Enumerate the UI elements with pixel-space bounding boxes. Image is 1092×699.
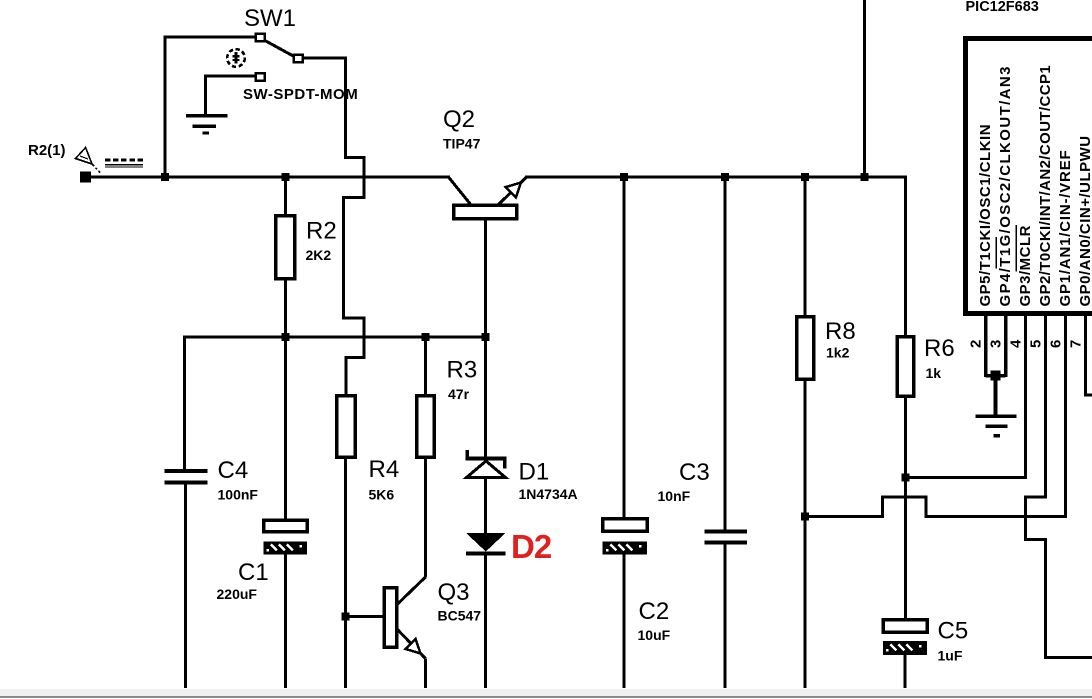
junction: top vertical on main net xyxy=(861,173,869,181)
wire: R6 node down to C5 xyxy=(904,478,907,621)
svg-text:C5: C5 xyxy=(938,618,969,645)
wire: R8 bottom node to pin6 (GP1) with hop xyxy=(805,314,1066,517)
svg-text:GP2/T0CKI/INT/AN2/COUT/CCP1: GP2/T0CKI/INT/AN2/COUT/CCP1 xyxy=(1037,65,1054,307)
svg-text:C2: C2 xyxy=(639,598,670,625)
svg-text:C1: C1 xyxy=(238,559,269,586)
svg-text:R3: R3 xyxy=(447,357,478,384)
probe symbol xyxy=(76,148,102,175)
wire: pin5 (GP2) routed to bottom right xyxy=(1026,314,1092,658)
pin 7 stub to right edge xyxy=(1086,314,1092,395)
svg-text:220uF: 220uF xyxy=(217,586,258,602)
wire: main net corner down to R6 xyxy=(904,176,907,338)
tag dashed marker xyxy=(105,160,143,167)
wire: R6 node to pin4 (GP3) xyxy=(904,314,1026,478)
svg-text:TIP47: TIP47 xyxy=(443,136,481,152)
svg-text:GP1/AN1/CIN-/VREF: GP1/AN1/CIN-/VREF xyxy=(1057,150,1074,307)
wire: node to ground xyxy=(994,376,998,416)
capacitor C2 xyxy=(603,177,648,688)
switch SW1 pole terminal xyxy=(256,34,265,42)
svg-text:BC547: BC547 xyxy=(438,608,482,624)
ground (SW1) xyxy=(186,114,228,135)
svg-text:10uF: 10uF xyxy=(638,627,671,643)
junction: R8 bottom node xyxy=(801,513,809,521)
junction: Q3 base on R4 lead xyxy=(342,613,350,621)
svg-text:1k: 1k xyxy=(926,365,942,381)
svg-text:100nF: 100nF xyxy=(218,487,259,503)
svg-text:1N4734A: 1N4734A xyxy=(519,486,578,502)
svg-text:D1: D1 xyxy=(519,459,550,486)
wire: pin2-pin3 tie xyxy=(986,374,1006,378)
wire: second horizontal net xyxy=(184,336,487,339)
svg-text:PIC12F683: PIC12F683 xyxy=(966,0,1039,15)
svg-text:R2(1): R2(1) xyxy=(28,142,66,159)
diode D2 xyxy=(466,533,506,688)
wire: SW1 throw2 to ground xyxy=(204,76,256,115)
svg-text:1uF: 1uF xyxy=(938,648,963,664)
resistor R8 xyxy=(797,177,814,688)
wire: main horizontal net left segment xyxy=(85,176,450,179)
bottom scrollbar band xyxy=(0,689,1092,698)
resistor R3 xyxy=(417,338,435,578)
svg-text:2: 2 xyxy=(968,340,985,348)
junction: pins 2-3 ground node xyxy=(991,371,1001,381)
svg-text:GP4/T1G/OSC2/CLKOUT/AN3: GP4/T1G/OSC2/CLKOUT/AN3 xyxy=(997,65,1014,306)
svg-text:SW-SPDT-MOM: SW-SPDT-MOM xyxy=(243,86,358,103)
resistor R6 xyxy=(897,337,914,479)
wire: vertical to top edge xyxy=(863,0,866,178)
wire: main horizontal net right segment xyxy=(525,176,907,179)
junction: C3 on main net xyxy=(721,173,729,181)
svg-text:GP0/AN0/CIN+/ULPWU: GP0/AN0/CIN+/ULPWU xyxy=(1077,135,1092,306)
svg-text:2K2: 2K2 xyxy=(306,247,332,263)
svg-text:1k2: 1k2 xyxy=(826,345,850,361)
junction: R2 top on main net xyxy=(282,173,290,181)
transistor Q3 xyxy=(346,577,426,688)
svg-text:4: 4 xyxy=(1008,339,1025,348)
svg-text:10nF: 10nF xyxy=(658,488,691,504)
svg-text:Q2: Q2 xyxy=(443,106,475,133)
switch SW1 lever xyxy=(264,40,295,57)
svg-text:D2: D2 xyxy=(511,528,552,565)
pin 3 stub xyxy=(1004,314,1008,377)
transistor Q2 xyxy=(448,177,527,340)
junction: R2/C1 on net2 xyxy=(282,333,290,341)
svg-text:GP5/T1CKI/OSC1/CLKIN: GP5/T1CKI/OSC1/CLKIN xyxy=(977,124,994,307)
switch SW1 throw1 terminal xyxy=(294,55,303,63)
capacitor C5 xyxy=(883,620,927,689)
junction: R6 bottom node xyxy=(902,474,910,482)
svg-text:Q3: Q3 xyxy=(438,579,470,606)
svg-text:7: 7 xyxy=(1068,340,1085,348)
node: left input terminal square xyxy=(80,172,91,183)
IC U1 PIC12F683 body xyxy=(966,39,1092,314)
svg-text:6: 6 xyxy=(1048,340,1065,348)
svg-text:47r: 47r xyxy=(448,386,470,402)
svg-text:R6: R6 xyxy=(924,335,955,362)
ground (IC) xyxy=(976,415,1017,438)
junction: R3 top on net2 xyxy=(422,333,430,341)
junction: C2 on main net xyxy=(620,173,628,181)
switch SW1 throw2 terminal xyxy=(256,73,265,81)
junction: Q2 base / D1 on net2 xyxy=(482,333,490,341)
capacitor C1 xyxy=(264,338,308,688)
svg-text:5: 5 xyxy=(1028,340,1045,348)
svg-text:GP3/MCLR: GP3/MCLR xyxy=(1017,225,1034,307)
junction: R8 on main net xyxy=(801,173,809,181)
capacitor C3 xyxy=(705,177,748,688)
svg-text:C3: C3 xyxy=(679,459,710,486)
wire: SW1 left branch xyxy=(164,36,259,179)
resistor R2 xyxy=(276,177,295,339)
svg-text:SW1: SW1 xyxy=(244,5,296,32)
pin 2 stub xyxy=(984,314,988,377)
svg-text:R2: R2 xyxy=(306,218,337,245)
capacitor C4 xyxy=(165,336,208,689)
actuator circle symbol xyxy=(227,49,245,67)
overline T1G xyxy=(995,237,997,269)
resistor R4 xyxy=(337,396,356,689)
wire: SW1 throw1 branch down to R4 (with jogs) xyxy=(303,58,364,397)
svg-text:3: 3 xyxy=(988,340,1005,348)
svg-text:5K6: 5K6 xyxy=(369,487,395,503)
svg-text:R8: R8 xyxy=(825,318,856,345)
svg-text:R4: R4 xyxy=(369,456,400,483)
svg-text:C4: C4 xyxy=(218,457,249,484)
overline MCLR xyxy=(1015,225,1017,272)
junction: SW1 left branch on main net xyxy=(161,173,169,181)
diode D1 zener xyxy=(466,338,507,534)
